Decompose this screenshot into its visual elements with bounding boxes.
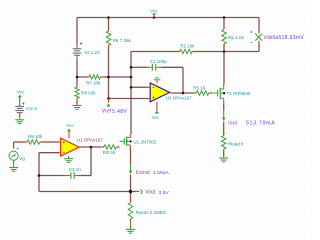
svg-text:R6 7.35k: R6 7.35k <box>113 38 132 43</box>
wire Rsens to ground <box>130 222 132 229</box>
label Vcc above U1 <box>66 123 74 128</box>
current probe Iconst <box>129 162 133 177</box>
svg-text:Vdelta: Vdelta <box>264 35 279 41</box>
wire U1 feedback down <box>90 147 92 176</box>
node R7/R8/Vz junction <box>76 76 79 79</box>
resistor R6 <box>106 29 110 49</box>
svg-text:R8 62k: R8 62k <box>81 91 96 96</box>
resistor RO <box>101 145 120 149</box>
wire Vg to R9 <box>14 142 25 149</box>
svg-text:Vref: Vref <box>102 109 112 115</box>
svg-text:Vcc: Vcc <box>150 9 158 14</box>
svg-text:5.48V: 5.48V <box>112 109 127 115</box>
transistor U1 2N7002 <box>120 135 132 149</box>
label Vcc above battery <box>17 89 25 94</box>
U1 negative supply pin to ground <box>64 156 73 163</box>
wire to U2 noninverting input <box>109 98 148 100</box>
svg-text:Iconst: Iconst <box>136 170 151 176</box>
wire Iconst to Vout node <box>130 177 132 192</box>
resistor Rsens <box>128 199 132 222</box>
label Vz 1.23 <box>84 50 100 55</box>
resistor Rload <box>222 133 226 153</box>
svg-text:Vz 1.23: Vz 1.23 <box>84 50 100 55</box>
svg-text:Vg: Vg <box>19 156 25 161</box>
node B at R7 <box>130 76 133 79</box>
wire U1 output row to gate resistor <box>82 146 101 148</box>
svg-text:1.59uA: 1.59uA <box>153 170 170 176</box>
node B at U2 inverting input <box>130 86 133 89</box>
label Rp 1.01 <box>228 35 244 40</box>
voltage source Vcc 6 <box>15 100 24 118</box>
label R5 10 <box>193 86 206 91</box>
voltage source Vz <box>73 43 83 61</box>
wire Rload to ground <box>223 152 225 157</box>
wire Vz to R7 node <box>76 61 78 78</box>
resistor Rp <box>222 26 226 47</box>
U1 output pin <box>79 146 82 148</box>
svg-text:Vcc: Vcc <box>17 89 25 94</box>
label R2 10k <box>180 43 195 48</box>
svg-text:3.5V: 3.5V <box>159 190 170 196</box>
node Vref junction <box>107 97 110 100</box>
svg-text:R7 10k: R7 10k <box>86 81 101 86</box>
ground under Vcc battery <box>15 118 24 124</box>
U2 output pin <box>170 92 174 94</box>
svg-text:U1 2N7002: U1 2N7002 <box>133 139 156 144</box>
svg-text:518.93mV: 518.93mV <box>279 35 305 41</box>
node Vout junction <box>129 190 132 193</box>
svg-text:Rsens 2.2MEG: Rsens 2.2MEG <box>136 210 167 215</box>
wire Iout to Rload <box>223 123 225 135</box>
current probe Iout <box>222 107 226 124</box>
svg-text:Rload 8: Rload 8 <box>228 141 244 146</box>
wire top Vcc rail <box>77 17 259 19</box>
U2 positive supply rail symbol <box>154 78 161 83</box>
transistor T1 IRF9540 <box>212 84 225 104</box>
wire T1 drain to Iout probe <box>223 104 225 110</box>
label C3 1n <box>69 167 82 172</box>
svg-text:Vcc 6: Vcc 6 <box>26 106 38 111</box>
label Vcc 6 <box>26 106 38 111</box>
voltage source Vg <box>9 145 19 165</box>
wire C1 branch left <box>131 66 146 68</box>
svg-text:T1 IRF9540: T1 IRF9540 <box>227 91 251 96</box>
svg-text:U1 OPAx197: U1 OPAx197 <box>77 138 103 143</box>
svg-text:R9 10k: R9 10k <box>28 134 43 139</box>
label C1 100p <box>150 59 168 64</box>
value 5.48V <box>112 109 127 115</box>
node top rail at Vcc pin <box>153 16 156 19</box>
resistor R8 <box>75 85 79 102</box>
node R2/Rp/T1 source junction <box>223 50 226 53</box>
value 513.79mA <box>246 121 275 127</box>
label Vg <box>19 156 25 161</box>
ground under Vg <box>9 164 18 171</box>
wire C3 branch from left loop <box>39 175 64 177</box>
wire source of T1 <box>223 52 225 85</box>
U2 negative supply pin to Vcc arrow <box>155 102 160 114</box>
node top rail at Rp <box>223 16 226 19</box>
wire U2 output row <box>173 92 194 94</box>
wire Rp sense row to voltmeter <box>224 51 259 53</box>
label R9 10k <box>28 134 43 139</box>
value 518.93mV <box>279 35 305 41</box>
wire node B vertical <box>130 52 132 135</box>
svg-text:Rp 1.01: Rp 1.01 <box>228 35 244 40</box>
wire R6 leads <box>108 18 110 78</box>
op-amp U2 OPAx197 <box>150 83 169 102</box>
resistor R2 <box>177 49 196 53</box>
label R7 10k <box>86 81 101 86</box>
svg-text:U2 OPAx197: U2 OPAx197 <box>166 95 192 100</box>
wire U2 inverting branch <box>131 86 147 88</box>
svg-text:513.79mA: 513.79mA <box>246 121 275 127</box>
wire voltmeter right side <box>258 18 260 52</box>
ground under Rload <box>219 157 228 162</box>
node B at C1 <box>130 66 133 69</box>
wire Vout stub <box>131 191 137 193</box>
svg-text:Iout: Iout <box>228 120 237 126</box>
wire U1 inverting loop <box>39 153 59 192</box>
power pin Vcc top <box>150 9 158 18</box>
U2 input pins <box>147 87 151 98</box>
resistor R7 <box>87 75 104 79</box>
label Vout <box>145 190 156 196</box>
wire R9 to U1 input <box>43 141 59 143</box>
label Vref <box>102 109 112 115</box>
label Rload 8 <box>228 141 244 146</box>
svg-text:RO 1k: RO 1k <box>103 150 117 155</box>
wire Vref drop <box>108 77 110 99</box>
node R6/R7 junction <box>107 76 110 79</box>
label Iconst <box>136 170 151 176</box>
wire R2 row <box>131 51 224 53</box>
wire C1 branch right and corner to output <box>162 67 183 93</box>
label U1 2N7002 <box>133 139 156 144</box>
value 3.5V <box>159 190 170 196</box>
wire Q1 source to Iconst probe <box>130 149 132 164</box>
svg-text:Vcc: Vcc <box>66 123 74 128</box>
label RO 1k <box>103 150 117 155</box>
wire R8 leads <box>76 77 78 105</box>
named net Vref pin <box>106 99 110 107</box>
resistor R9 <box>25 140 43 144</box>
wire R7 row to node B <box>77 76 131 78</box>
node top rail at R6 <box>107 16 110 19</box>
label U1 OPAx197 <box>77 138 103 143</box>
label R8 62k <box>81 91 96 96</box>
wire Rp leads <box>223 18 225 52</box>
wire C3 right to feedback corner <box>82 175 92 177</box>
node U1 output junction <box>90 146 93 149</box>
wire left drop to Vz <box>76 18 78 45</box>
ground under Rsens <box>126 228 135 233</box>
label Vcc under U2 <box>152 115 160 120</box>
voltmeter Vdelta <box>250 31 262 44</box>
named net Vout pin <box>136 190 142 194</box>
power arrow above Vcc battery <box>18 95 22 100</box>
node left loop at C3 <box>38 174 41 177</box>
svg-text:R2 10k: R2 10k <box>180 43 195 48</box>
U1 positive supply pin <box>67 129 71 139</box>
svg-text:C1 100p: C1 100p <box>150 59 168 64</box>
svg-text:Vcc: Vcc <box>152 115 160 120</box>
node C1 feedback at U2 output <box>182 92 185 95</box>
wire Vout node to Rsens <box>130 192 132 202</box>
svg-text:C3 1n: C3 1n <box>69 167 82 172</box>
label Iout <box>228 120 237 126</box>
label R6 7.35k <box>113 38 132 43</box>
svg-text:Vout: Vout <box>145 190 156 196</box>
resistor R5 <box>194 91 213 95</box>
U1 input pins <box>58 142 61 153</box>
label U2 OPAx197 <box>166 95 192 100</box>
svg-text:R5 10: R5 10 <box>193 86 206 91</box>
capacitor C3 <box>64 172 82 179</box>
wire bottom rail <box>39 191 131 193</box>
label T1 IRF9540 <box>227 91 251 96</box>
label Rsens 2.2MEG <box>136 210 167 215</box>
value 1.59uA <box>153 170 170 176</box>
capacitor C1 <box>146 64 162 71</box>
op-amp U1 OPAx197 <box>61 138 80 156</box>
ground under R8 <box>73 105 82 110</box>
label Vdelta <box>264 35 279 41</box>
